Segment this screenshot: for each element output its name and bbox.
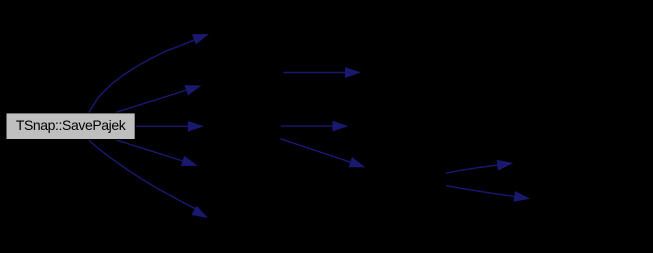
wire edge B1: node B2 -> node C1 [283,67,361,78]
wire edge B3: node B3 -> node C3 [281,139,366,168]
wire edge A4: TSnap::SavePajek -> node B4 [116,140,198,166]
wire edge A1: TSnap::SavePajek -> node B1 (curved up) [89,34,210,113]
node TSnap::SavePajek (current function, grey box) [6,113,135,140]
wire edge C2: node C3 -> node D2 [446,186,530,202]
wire edge A3: TSnap::SavePajek -> node B3 [135,121,204,132]
wire edge A2: TSnap::SavePajek -> node B2 [116,85,202,112]
wire edge A5: TSnap::SavePajek -> node B5 (curved down) [89,140,209,218]
wire edge B2: node B3 -> node C2 [281,121,349,132]
svg-text:TSnap::SavePajek: TSnap::SavePajek [16,117,127,133]
wire edge C1: node C3 -> node D1 [446,160,513,173]
